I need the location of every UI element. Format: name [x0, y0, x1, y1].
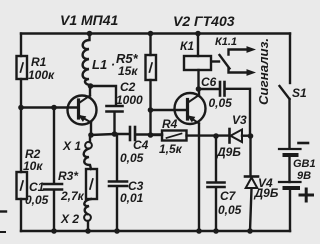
wire V1 collector: [89, 86, 91, 96]
svg-text:К1: К1: [180, 39, 194, 53]
svg-text:S1: S1: [292, 86, 307, 100]
wire C6 left: [199, 88, 220, 90]
node base rail left: [18, 105, 24, 111]
svg-text:0,01: 0,01: [120, 191, 144, 205]
contact K1.1 dash: [212, 60, 220, 62]
wire S1 to battery: [288, 99, 290, 147]
node C1 bottom: [51, 228, 57, 234]
battery GB1 cell2: [279, 181, 301, 183]
resistor R3: [86, 169, 97, 199]
node C7 bottom: [213, 228, 219, 234]
svg-text:С4: С4: [133, 138, 149, 152]
svg-text:9В: 9В: [297, 170, 311, 182]
svg-text:1000: 1000: [116, 93, 143, 107]
wire V2 collector: [198, 89, 200, 95]
capacitor C2: [107, 105, 123, 108]
contact K1.1 top lead: [229, 50, 248, 55]
node K1 top: [195, 31, 201, 37]
wire R4 left: [151, 134, 163, 136]
svg-text:GB1: GB1: [293, 158, 316, 170]
svg-text:1,5к: 1,5к: [159, 142, 183, 156]
wire battery bottom: [289, 188, 291, 231]
node C7 top: [213, 133, 219, 139]
wire C1 top: [53, 108, 55, 184]
node collector L1: [88, 83, 94, 89]
wire C2 bottom: [113, 112, 115, 134]
wire C3 bottom: [116, 187, 118, 232]
svg-text:15к: 15к: [118, 64, 138, 78]
capacitor C3: [109, 180, 127, 183]
svg-text:100к: 100к: [28, 68, 55, 82]
contact K1.1 arm: [220, 55, 230, 69]
terminal X1: [85, 142, 92, 149]
wire base rail V1: [21, 106, 78, 108]
resistor R4: [162, 131, 187, 141]
svg-text:10к: 10к: [23, 159, 43, 173]
svg-text:С6: С6: [201, 75, 217, 89]
capacitor C6: [219, 82, 222, 96]
wire C7 bottom: [215, 188, 217, 232]
node C2 bottom: [112, 131, 118, 137]
wire S1 top: [289, 34, 291, 84]
wire C3 top: [116, 134, 118, 181]
svg-text:Д9Б: Д9Б: [216, 145, 241, 159]
wire squiggle R3-X2: [84, 199, 91, 214]
svg-text:С7: С7: [220, 189, 237, 203]
battery GB1 cell1: [279, 148, 301, 150]
node L1 top: [87, 31, 93, 37]
diode V3: [228, 129, 231, 143]
wire mid rail left: [91, 134, 129, 135]
wire R2 bottom: [20, 199, 22, 231]
wire V4 top: [249, 136, 251, 176]
svg-text:Д9Б: Д9Б: [254, 186, 279, 200]
wire collector node to C2: [91, 86, 117, 106]
wire R5 top: [149, 34, 151, 56]
wire relay bottom: [197, 70, 199, 89]
svg-text:R3*: R3*: [58, 169, 79, 183]
wire R5 bottom: [149, 80, 151, 135]
svg-text:С1: С1: [29, 180, 45, 194]
wire left column top: [20, 34, 22, 57]
svg-text:X 2: X 2: [60, 212, 79, 226]
svg-text:V1 МП41: V1 МП41: [60, 12, 119, 28]
wire V3 right: [242, 134, 251, 136]
transistor V1: [68, 96, 97, 125]
wire V2 base: [151, 109, 187, 111]
contact K1.1 bottom lead: [229, 69, 248, 73]
resistor R5: [146, 55, 157, 80]
wire C6 right: [225, 89, 250, 136]
node X2 bottom: [85, 228, 91, 234]
wire R1 bottom: [20, 79, 22, 108]
wire C7 top: [215, 136, 217, 182]
svg-text:К1.1: К1.1: [215, 36, 237, 48]
node R5 bottom: [148, 132, 154, 138]
svg-text:X 1: X 1: [62, 139, 81, 153]
wire C4 right: [136, 133, 162, 135]
svg-text:Сигнализ.: Сигнализ.: [256, 38, 271, 105]
resistor R2: [17, 172, 28, 199]
node C3 bottom: [114, 228, 120, 234]
capacitor C4: [129, 127, 132, 140]
resistor R1: [17, 56, 28, 79]
svg-text:0,05: 0,05: [120, 151, 144, 165]
switch S1: [280, 86, 290, 99]
wire squiggle X1-R3: [84, 149, 91, 169]
node V4 bottom: [247, 228, 253, 234]
wire X1 stub: [89, 135, 91, 142]
svg-text:0,05: 0,05: [218, 203, 242, 217]
wire X2 bottom: [87, 221, 89, 231]
node R5 top: [148, 31, 154, 37]
svg-text:0,05: 0,05: [209, 96, 233, 110]
wire V1 emitter: [90, 123, 92, 136]
node V2 emitter bottom: [196, 228, 202, 234]
wire C1 bottom: [53, 190, 55, 231]
terminal X2: [84, 214, 91, 221]
wire bottom rail: [21, 230, 290, 232]
svg-text:V2 ГТ403: V2 ГТ403: [173, 13, 235, 29]
capacitor C7: [208, 181, 225, 184]
svg-text:L1 ·: L1 ·: [92, 57, 115, 72]
edge artifact rail: [0, 231, 5, 233]
node emitter X1: [88, 132, 94, 138]
node relay C6: [196, 86, 202, 92]
capacitor C1: [44, 183, 62, 186]
wire R2 top: [20, 108, 22, 173]
wire top rail: [21, 32, 290, 34]
wire V4 bottom: [250, 189, 252, 232]
relay K1: [184, 56, 211, 70]
svg-text:0,05: 0,05: [25, 193, 49, 207]
wire V2 emitter: [198, 124, 200, 232]
edge artifact dash: [0, 210, 6, 212]
node C1 top: [51, 105, 57, 111]
battery GB1 minus sign: [299, 142, 309, 145]
wire R4 right to V3: [187, 134, 229, 136]
node V3 right: [248, 133, 254, 139]
wire relay top: [197, 34, 199, 57]
inductor L1: [83, 34, 90, 85]
svg-text:R4: R4: [162, 117, 178, 131]
diode V4: [245, 175, 258, 178]
battery GB1 plus sign: [300, 189, 313, 201]
battery GB1 link: [288, 155, 290, 182]
svg-text:С2: С2: [120, 80, 136, 94]
svg-text:V3: V3: [232, 113, 247, 127]
svg-text:R1: R1: [31, 55, 47, 69]
transistor V2: [175, 93, 206, 124]
svg-text:2,7к: 2,7к: [60, 189, 85, 203]
node V2 base: [148, 107, 154, 113]
